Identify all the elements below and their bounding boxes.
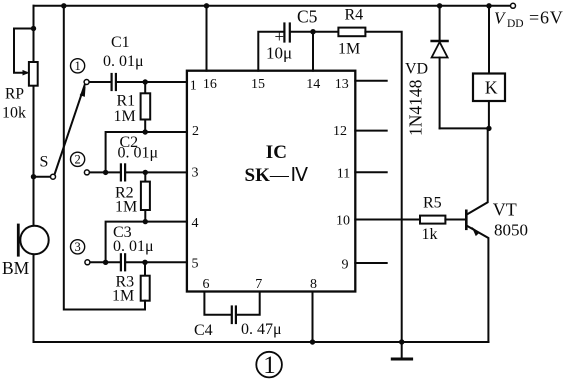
svg-text:1k: 1k: [422, 226, 438, 243]
svg-text:VD: VD: [405, 61, 428, 78]
svg-text:S: S: [40, 153, 49, 170]
svg-text:6: 6: [203, 277, 210, 292]
svg-text:10k: 10k: [2, 104, 26, 121]
svg-text:8: 8: [310, 277, 317, 292]
svg-text:0. 47μ: 0. 47μ: [241, 321, 282, 338]
svg-text:IC: IC: [266, 142, 287, 163]
svg-text:1M: 1M: [115, 199, 137, 216]
svg-text:11: 11: [337, 166, 350, 181]
svg-text:5: 5: [192, 257, 199, 272]
svg-text:10: 10: [336, 213, 350, 228]
svg-text:1M: 1M: [338, 41, 360, 58]
svg-text:1: 1: [190, 79, 197, 94]
svg-text:VT: VT: [493, 200, 517, 220]
svg-text:C1: C1: [111, 34, 130, 51]
svg-text:C5: C5: [297, 7, 318, 27]
svg-text:BM: BM: [2, 258, 30, 278]
svg-text:1M: 1M: [112, 288, 134, 305]
svg-text:2: 2: [192, 124, 199, 139]
svg-text:DD: DD: [507, 18, 524, 30]
svg-text:9: 9: [342, 257, 349, 272]
svg-text:0. 01μ: 0. 01μ: [118, 145, 159, 162]
svg-text:3: 3: [192, 166, 199, 181]
svg-text:C4: C4: [194, 322, 213, 339]
svg-text:14: 14: [306, 77, 320, 92]
svg-text:1N4148: 1N4148: [406, 79, 426, 136]
svg-text:16: 16: [203, 77, 217, 92]
svg-text:13: 13: [335, 77, 349, 92]
svg-text:7: 7: [255, 277, 262, 292]
svg-text:2: 2: [74, 153, 80, 167]
svg-text:+: +: [275, 27, 285, 46]
svg-text:R4: R4: [345, 7, 364, 24]
svg-text:1: 1: [263, 352, 276, 379]
svg-text:SK— Ⅳ: SK— Ⅳ: [245, 165, 309, 186]
svg-text:1M: 1M: [114, 108, 136, 125]
svg-text:8050: 8050: [494, 220, 528, 239]
svg-text:=6V: =6V: [529, 7, 564, 27]
svg-text:3: 3: [74, 240, 80, 254]
svg-text:4: 4: [192, 216, 199, 231]
svg-text:0. 01μ: 0. 01μ: [113, 238, 154, 255]
svg-text:0. 01μ: 0. 01μ: [103, 53, 144, 70]
svg-text:1: 1: [74, 59, 80, 73]
svg-text:10μ: 10μ: [266, 43, 292, 62]
svg-text:12: 12: [333, 124, 347, 139]
svg-text:15: 15: [251, 77, 265, 92]
svg-text:R1: R1: [117, 92, 136, 109]
svg-text:R5: R5: [423, 194, 442, 211]
svg-text:K: K: [485, 78, 498, 98]
svg-text:RP: RP: [5, 86, 24, 103]
